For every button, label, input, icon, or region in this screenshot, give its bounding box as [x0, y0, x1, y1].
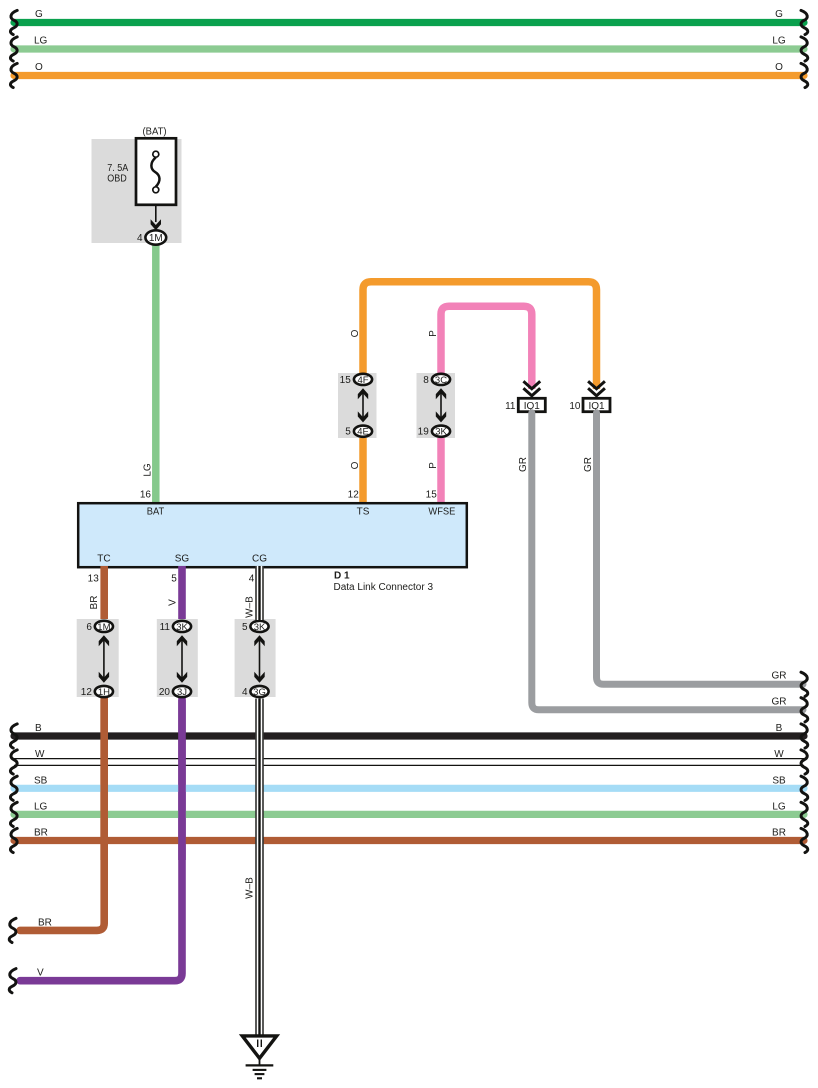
svg-text:P: P [428, 462, 439, 469]
svg-text:4: 4 [249, 573, 255, 584]
svg-text:LG: LG [142, 463, 153, 477]
svg-text:O: O [35, 62, 43, 73]
svg-text:8: 8 [423, 375, 429, 386]
svg-text:15: 15 [340, 375, 352, 386]
svg-text:11: 11 [505, 401, 516, 412]
svg-text:SB: SB [772, 775, 786, 786]
svg-text:12: 12 [348, 490, 360, 501]
svg-text:3K: 3K [254, 622, 266, 633]
svg-text:LG: LG [34, 36, 48, 47]
svg-text:6: 6 [86, 622, 92, 633]
svg-text:P: P [428, 330, 439, 337]
svg-text:CG: CG [252, 554, 267, 565]
svg-text:11: 11 [160, 622, 171, 633]
svg-text:16: 16 [140, 490, 152, 501]
svg-text:5: 5 [242, 622, 248, 633]
svg-text:4: 4 [242, 687, 248, 698]
svg-text:G: G [35, 9, 43, 20]
svg-text:LG: LG [772, 801, 786, 812]
svg-text:5: 5 [171, 573, 177, 584]
svg-text:B: B [776, 723, 783, 734]
svg-text:WFSE: WFSE [428, 506, 455, 517]
svg-text:BR: BR [89, 596, 100, 610]
svg-text:V: V [37, 968, 44, 979]
svg-text:4E: 4E [357, 427, 369, 438]
svg-text:GR: GR [583, 457, 594, 472]
svg-text:3K: 3K [176, 622, 188, 633]
svg-text:LG: LG [34, 801, 48, 812]
svg-text:BR: BR [772, 828, 786, 839]
svg-text:1M: 1M [97, 622, 110, 633]
svg-text:V: V [168, 599, 179, 606]
svg-text:3C: 3C [435, 375, 447, 386]
svg-text:10: 10 [569, 401, 581, 412]
svg-text:4F: 4F [357, 375, 368, 386]
svg-text:W: W [774, 749, 784, 760]
svg-text:O: O [350, 461, 361, 469]
svg-text:W–B: W–B [245, 596, 256, 618]
svg-text:BR: BR [38, 917, 52, 928]
svg-text:15: 15 [426, 490, 438, 501]
svg-text:G: G [775, 9, 783, 20]
svg-text:BR: BR [34, 828, 48, 839]
svg-text:13: 13 [88, 573, 100, 584]
svg-text:3K: 3K [435, 427, 447, 438]
svg-text:SB: SB [34, 775, 48, 786]
svg-text:Data Link Connector 3: Data Link Connector 3 [334, 582, 434, 593]
svg-text:3J: 3J [177, 687, 187, 698]
svg-text:GR: GR [772, 696, 787, 707]
svg-text:20: 20 [159, 687, 171, 698]
svg-text:O: O [350, 329, 361, 337]
svg-text:(BAT): (BAT) [143, 127, 167, 138]
svg-text:B: B [35, 723, 42, 734]
svg-text:D 1: D 1 [334, 571, 350, 582]
svg-text:TS: TS [357, 506, 370, 517]
svg-text:BAT: BAT [147, 506, 165, 517]
svg-text:4: 4 [137, 233, 143, 244]
svg-text:W–B: W–B [245, 877, 256, 899]
svg-text:TC: TC [97, 554, 110, 565]
svg-text:1H: 1H [98, 687, 110, 698]
svg-text:LG: LG [772, 36, 786, 47]
svg-text:OBD: OBD [107, 173, 127, 184]
svg-text:O: O [775, 62, 783, 73]
svg-text:3G: 3G [253, 687, 266, 698]
svg-text:1M: 1M [149, 233, 163, 244]
svg-text:5: 5 [345, 427, 351, 438]
svg-text:19: 19 [418, 427, 430, 438]
svg-text:12: 12 [81, 687, 93, 698]
svg-text:GR: GR [518, 457, 529, 472]
svg-text:SG: SG [175, 554, 190, 565]
svg-text:W: W [35, 749, 45, 760]
svg-text:GR: GR [772, 670, 787, 681]
